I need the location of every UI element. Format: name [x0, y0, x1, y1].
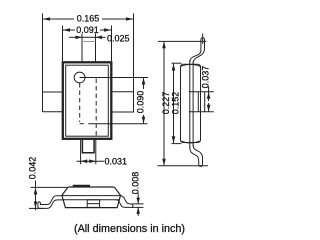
dimension 0.031 arrows — [81, 159, 88, 163]
dimension 0.025 line with outside arrows — [69, 36, 82, 38]
top lead stub right edge / extension — [95, 34, 97, 62]
dimension 0.042 top extension line — [31, 186, 68, 188]
dimension 0.031 line — [77, 160, 105, 162]
dimension 0.008 upper arrow (points down) — [137, 193, 139, 204]
dimension 0.025 right arrow (points left) — [96, 36, 103, 40]
side view tab band top edge / 0.037 top extension — [189, 91, 214, 93]
dimension 0.091 right arrow — [104, 28, 111, 32]
front view lead plane top line — [62, 195, 121, 197]
package body outer rectangle — [63, 62, 112, 139]
side view bottom lead (bent) — [190, 145, 203, 167]
side view body top arc — [181, 64, 201, 66]
bottom lead extension lines for 0.031 — [80, 140, 82, 164]
hidden pad left edge (dashed) — [79, 83, 81, 122]
dimension 0.165 right arrow — [126, 17, 133, 21]
dimension 0.042 bottom extension line — [29, 207, 44, 209]
side view body bottom arc — [181, 141, 201, 143]
dimension 0.008 lower arrow (points up) — [137, 208, 139, 216]
svg-text:0.025: 0.025 — [107, 33, 130, 43]
svg-text:0.042: 0.042 — [27, 157, 37, 180]
dimension 0.227 line — [163, 42, 165, 166]
front view right lead — [116, 196, 133, 208]
side view lead frame vertical pair — [189, 60, 191, 148]
dimension 0.090 up arrow — [143, 78, 145, 89]
top lead stub top edge — [82, 41, 96, 43]
pin 1 indicator circle — [74, 72, 85, 83]
top view: 0.091 left extension line — [62, 26, 64, 62]
dimension 0.037 up arrow — [208, 92, 210, 101]
package body inner rectangle — [66, 65, 109, 136]
front view center lead rectangle — [87, 200, 99, 208]
side view top lead (bent) — [190, 38, 205, 64]
dimension 0.152 line — [173, 64, 175, 143]
side view body outline — [181, 64, 201, 142]
dimension 0.091 line — [63, 29, 75, 31]
front view lead plane bottom line — [63, 199, 121, 201]
front view left lead — [38, 196, 63, 209]
dimension 0.037 down arrow — [208, 103, 210, 112]
svg-text:0.227: 0.227 — [161, 92, 171, 115]
top view: 0.091 right extension line — [111, 26, 113, 62]
svg-text:(All dimensions in inch): (All dimensions in inch) — [74, 223, 185, 235]
svg-text:0.152: 0.152 — [170, 92, 180, 115]
side view tab band bottom edge / 0.037 bottom extension — [189, 111, 214, 113]
dimension 0.165 left arrow — [43, 17, 50, 21]
dimension 0.042 line — [35, 181, 37, 211]
dimension 0.008 ticks — [132, 203, 144, 205]
dimension 0.227 top extension line — [158, 40, 206, 42]
dimension 0.037 leader stub from text — [208, 87, 210, 93]
top view: 0.165 left extension line — [42, 14, 44, 113]
svg-text:0.090: 0.090 — [136, 91, 146, 114]
front view die attach dark bar — [73, 185, 90, 188]
front view center lead mid line — [87, 203, 99, 205]
svg-text:0.008: 0.008 — [130, 172, 140, 195]
dimension 0.152 top extension — [172, 62, 182, 64]
svg-text:0.165: 0.165 — [77, 14, 100, 24]
dimension 0.165 line — [43, 18, 74, 20]
bottom lead — [82, 140, 94, 153]
hidden pad bottom edge (dash then extension) — [80, 123, 84, 125]
reference line from circle center to 0.090 dimension — [80, 77, 149, 79]
right tab — [111, 92, 133, 112]
side view tab inner line — [197, 92, 199, 112]
side view tab tip — [204, 92, 206, 112]
dimension 0.090 down arrow — [143, 115, 145, 123]
top view: 0.165 right extension line — [133, 14, 135, 93]
dimension 0.091 left arrow — [63, 28, 70, 32]
front view body outline — [62, 187, 121, 208]
svg-text:0.031: 0.031 — [105, 156, 128, 166]
svg-text:0.037: 0.037 — [200, 66, 210, 89]
top lead stub left edge / extension — [81, 34, 83, 62]
dimension 0.227 bottom extension line — [158, 165, 209, 167]
side view top lead tip stub — [202, 34, 204, 45]
hidden pad right edge (dashed) — [95, 79, 97, 137]
dimension 0.025 left arrow (points right) — [76, 36, 83, 40]
left tab — [43, 91, 63, 93]
